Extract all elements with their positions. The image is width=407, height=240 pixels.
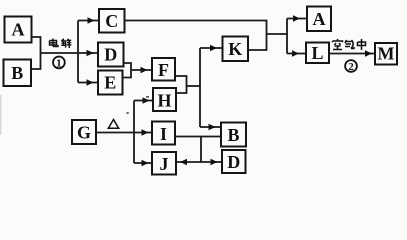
box K [223,37,249,62]
svg-text:H: H [157,91,171,111]
svg-text:2: 2 [348,61,354,73]
svg-text:C: C [105,11,118,31]
svg-text:I: I [160,124,167,144]
wire F/H merge [175,76,187,93]
arrow into J from right [176,161,201,163]
arrow into B2 [200,126,221,128]
box J [152,152,176,175]
box G [72,120,96,144]
label 电解 [50,39,72,49]
wire drop from I line [200,137,202,163]
box M [375,43,397,65]
svg-text:B: B [227,125,239,145]
wire main electrolysis line [41,52,79,54]
svg-text:D: D [227,152,240,172]
arrow L to M [329,53,375,55]
svg-text:A: A [313,9,326,29]
arrow G to I [96,132,152,134]
box A1 [5,17,32,43]
box C [99,9,125,33]
box D2 [222,150,246,173]
svg-text:A: A [12,20,25,40]
wire vertical V1 [199,48,201,127]
svg-text:B: B [11,63,23,83]
arrow into F [131,69,152,71]
arrow into C [78,20,98,22]
wire C and K outputs merge [125,21,267,51]
box B1 [4,60,32,87]
arrow into E [78,82,97,84]
label heating triangle [108,120,118,129]
box B2 [221,123,246,147]
svg-text:G: G [77,123,91,143]
svg-text:1: 1 [56,58,62,70]
svg-text:K: K [228,39,242,59]
wire I to B2 [175,136,221,138]
arrow into D2 [201,161,222,163]
scan speck above trunk [127,112,129,114]
wire A1/B1 merge [31,37,41,69]
label circled 2 [345,60,357,73]
svg-text:E: E [104,73,116,93]
arrow into J from left [134,162,152,164]
wire branch to A2 and L [286,19,288,54]
arrow into L [287,53,306,55]
box L [306,43,329,64]
scan smudge left edge [0,95,2,135]
box F [152,58,175,81]
label circled 1 [53,57,65,70]
arrow into A2 [287,18,307,20]
box I [152,122,175,145]
arrow into K [200,47,223,49]
svg-text:J: J [160,154,169,174]
box A2 [307,7,331,32]
scan speck near H [146,96,149,98]
wire D1/E merge [123,63,132,78]
wire trunk to C D E [77,21,79,83]
wire G trunk to H and J [133,101,135,164]
box H [153,88,176,111]
svg-text:D: D [104,45,117,65]
label 空气中 [333,39,366,50]
wire F/H to vertical V1 [187,85,201,87]
svg-text:L: L [311,43,323,63]
box E [98,71,123,95]
svg-text:F: F [158,60,169,80]
svg-text:M: M [378,44,395,64]
box D1 [98,43,124,67]
arrow into H [134,100,153,102]
arrow into D [78,52,97,54]
